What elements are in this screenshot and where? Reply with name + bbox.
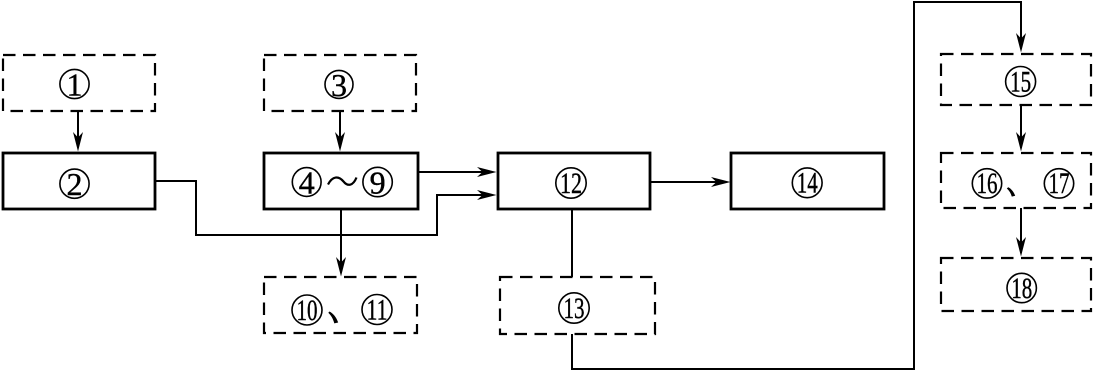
box 10,11 (dashed): [264, 277, 417, 333]
node 11: [362, 293, 392, 326]
svg-text:9: 9: [370, 165, 386, 201]
svg-text:12: 12: [560, 167, 582, 200]
wire 12 down to 13: [571, 209, 573, 277]
box 18 (dashed): [941, 258, 1091, 311]
svg-text:13: 13: [564, 292, 585, 325]
node 15: [1006, 65, 1036, 98]
svg-text:15: 15: [1010, 65, 1031, 98]
wire arrow 4-9 down to 10,11: [336, 209, 346, 277]
svg-text:18: 18: [1011, 272, 1032, 305]
node 18: [1007, 272, 1036, 305]
svg-text:14: 14: [797, 167, 818, 200]
svg-text:10: 10: [297, 294, 318, 327]
box 13 (dashed): [500, 277, 655, 334]
wire arrow 1 to 2: [73, 111, 83, 152]
svg-text:4: 4: [299, 165, 315, 201]
box 16,17 (dashed): [941, 153, 1091, 208]
node 14: [792, 167, 822, 200]
node 4: [292, 165, 321, 201]
node 16: [972, 167, 1001, 200]
node 17: [1044, 167, 1073, 200]
node 3: [325, 67, 353, 103]
wire arrow 12 to 14: [650, 177, 731, 187]
box 2 (solid): [3, 153, 155, 209]
node 12: [556, 167, 586, 200]
tilde: [328, 177, 357, 184]
wire arrow 3 to 4-9: [335, 111, 345, 152]
wire arrow 4-9 to 12 (upper): [418, 167, 497, 177]
wire arrow 15 to 16,17: [1016, 105, 1026, 152]
node 2: [60, 166, 89, 202]
wire arrow 16,17 to 18: [1016, 208, 1026, 257]
box 12 (solid): [498, 153, 650, 209]
node 13: [559, 292, 589, 325]
svg-text:3: 3: [331, 67, 347, 103]
node 10: [292, 294, 322, 327]
svg-text:11: 11: [367, 293, 388, 326]
box 1 (dashed): [3, 55, 155, 111]
svg-text:1: 1: [67, 67, 83, 103]
wire 13 bottom long loop to 15: [572, 2, 1026, 369]
wire 2 to 12 (lower): [155, 181, 497, 235]
svg-text:17: 17: [1049, 167, 1070, 200]
node 1: [60, 67, 89, 103]
svg-text:16: 16: [977, 167, 998, 200]
comma: [328, 312, 338, 324]
box 15 (dashed): [941, 54, 1091, 105]
box 3 (dashed): [264, 55, 416, 111]
comma: [1007, 187, 1015, 196]
node 9: [363, 165, 392, 201]
box 14 (solid): [731, 153, 884, 209]
box 4-9 (solid): [264, 153, 418, 209]
svg-text:2: 2: [67, 166, 83, 202]
